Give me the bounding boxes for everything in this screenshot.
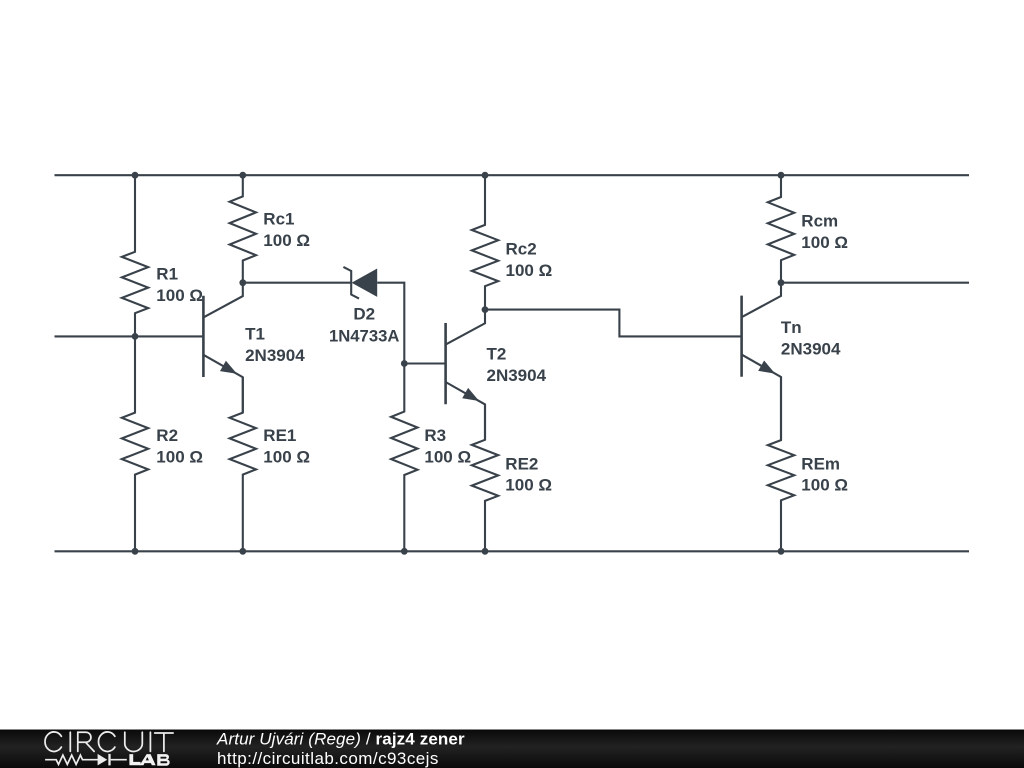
- svg-text:100 Ω: 100 Ω: [156, 286, 203, 305]
- svg-text:REm: REm: [801, 455, 840, 474]
- svg-text:Artur Ujvári (Rege) / rajz4 ze: Artur Ujvári (Rege) / rajz4 zener: [216, 729, 465, 748]
- transistor T2 2N3904: [446, 310, 547, 440]
- svg-text:2N3904: 2N3904: [781, 339, 841, 358]
- resistor Rc1: [230, 175, 310, 283]
- node: D2-R3-T2base: [401, 360, 408, 367]
- resistor R3: [391, 364, 471, 552]
- logo resistor-diode glyph: [45, 754, 127, 766]
- transistor Tn 2N3904: [742, 283, 841, 440]
- svg-text:100 Ω: 100 Ω: [506, 261, 553, 280]
- resistor Rcm: [768, 175, 848, 283]
- wire: Rc1/T1 collector node to D2 cathode: [243, 282, 351, 284]
- resistor RE1: [230, 377, 310, 551]
- svg-text:Rc1: Rc1: [263, 210, 294, 229]
- wire: node to T2 base: [404, 362, 445, 364]
- node: Rcm-Tnc-out: [778, 279, 785, 286]
- wire: output from Tn collector node: [781, 282, 969, 284]
- node: rail-R1: [132, 172, 139, 179]
- wire: T2 collector node jog to Tn base: [485, 310, 742, 337]
- zener diode D2 1N4733A: [329, 267, 400, 346]
- logo diode triangle: [98, 754, 108, 766]
- svg-text:R2: R2: [156, 426, 178, 445]
- wire: top supply rail: [55, 174, 970, 176]
- resistor Rc2: [472, 175, 552, 309]
- node: Rc1-T1c-D2: [239, 279, 246, 286]
- svg-text:100 Ω: 100 Ω: [801, 233, 848, 252]
- svg-text:D2: D2: [353, 305, 375, 324]
- node: rail-Rc1: [239, 172, 246, 179]
- resistor R2: [122, 336, 203, 551]
- svg-text:http://circuitlab.com/c93cejs: http://circuitlab.com/c93cejs: [217, 749, 439, 768]
- resistor REm: [768, 377, 848, 551]
- svg-text:2N3904: 2N3904: [245, 346, 305, 365]
- node: rail-Rc2: [482, 172, 489, 179]
- node: gnd-R2: [132, 548, 139, 555]
- svg-text:T1: T1: [245, 325, 265, 344]
- svg-text:100 Ω: 100 Ω: [156, 447, 203, 466]
- node: R1-R2-base: [132, 333, 139, 340]
- svg-text:2N3904: 2N3904: [487, 366, 547, 385]
- wire: D2 anode down to R3/T2 base node: [377, 283, 404, 364]
- svg-text:100 Ω: 100 Ω: [263, 231, 310, 250]
- svg-text:R1: R1: [156, 265, 178, 284]
- logo LAB: [129, 754, 169, 766]
- node: gnd-REm: [778, 548, 785, 555]
- node: gnd-RE1: [239, 548, 246, 555]
- footer bar: [0, 730, 1024, 768]
- svg-text:RE2: RE2: [505, 455, 538, 474]
- resistor RE2: [472, 404, 552, 551]
- node: rail-Rcm: [778, 172, 785, 179]
- node: Rc2-T2c: [482, 306, 489, 313]
- svg-text:R3: R3: [424, 426, 446, 445]
- svg-text:Rcm: Rcm: [801, 212, 838, 231]
- wire: left input to T1 base: [55, 335, 204, 337]
- transistor T1 2N3904: [203, 283, 305, 413]
- svg-text:Tn: Tn: [781, 318, 802, 337]
- logo CIRCUIT wordmark: [45, 732, 173, 752]
- svg-text:100 Ω: 100 Ω: [505, 476, 552, 495]
- wire: bottom ground rail: [55, 550, 970, 552]
- node: gnd-R3: [401, 548, 408, 555]
- svg-text:100 Ω: 100 Ω: [263, 447, 310, 466]
- node: gnd-RE2: [482, 548, 489, 555]
- svg-text:100 Ω: 100 Ω: [801, 476, 848, 495]
- svg-text:100 Ω: 100 Ω: [424, 447, 471, 466]
- svg-text:Rc2: Rc2: [506, 240, 537, 259]
- svg-text:T2: T2: [487, 345, 507, 364]
- svg-text:1N4733A: 1N4733A: [329, 326, 400, 345]
- svg-text:RE1: RE1: [263, 426, 296, 445]
- resistor R1: [122, 175, 203, 336]
